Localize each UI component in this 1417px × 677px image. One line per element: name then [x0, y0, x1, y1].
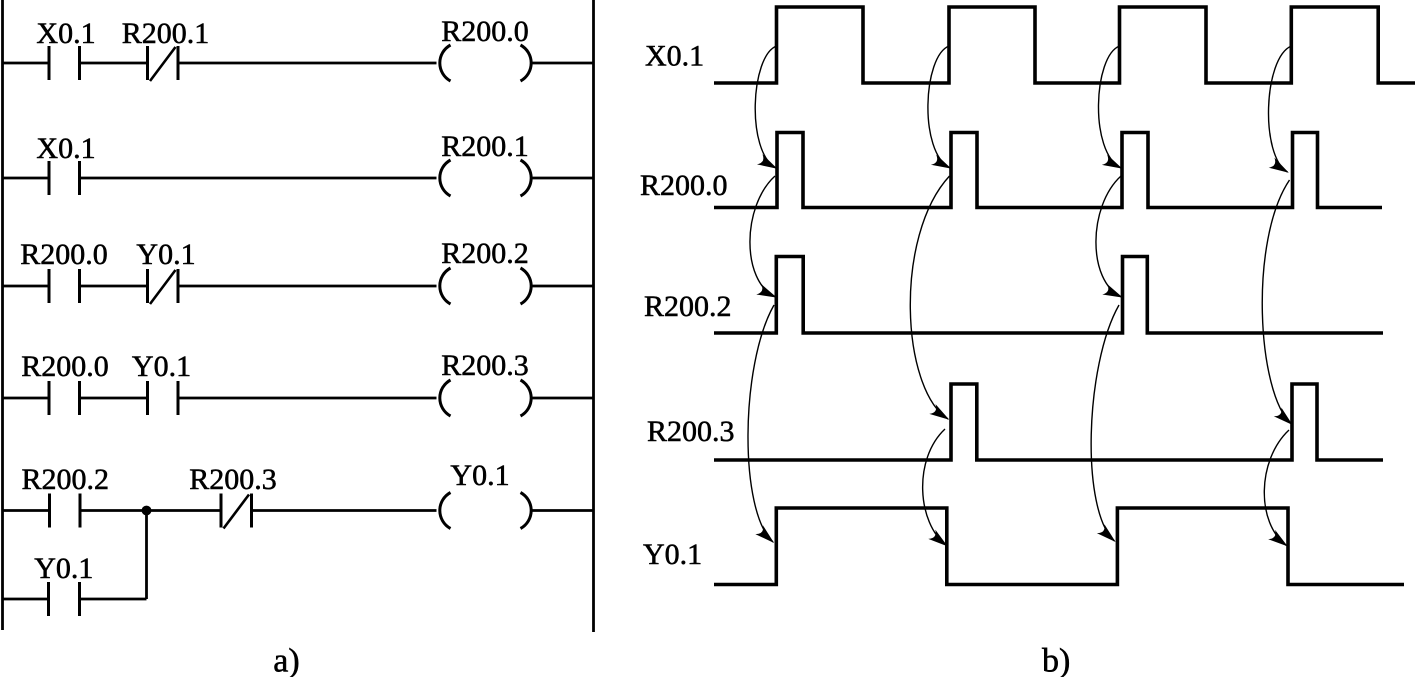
rung 5 wire segments — [3, 509, 594, 512]
coil Y0.1 — [440, 493, 531, 529]
coil R200.2 — [440, 268, 531, 304]
NC slash Y0.1 — [150, 270, 176, 304]
arrow X0.1->R200.0 c4 — [1269, 46, 1292, 172]
left power rail — [1, 0, 4, 630]
arrow X0.1->R200.0 c1 — [755, 46, 776, 168]
timing labels — [640, 40, 1070, 677]
rung 2 wire segments — [3, 177, 594, 180]
right power rail — [592, 0, 595, 632]
arrows — [748, 46, 1292, 546]
arrow R200.0->R200.2 c3 — [1096, 176, 1122, 297]
contact Y0.1 (NC) rung3 — [148, 269, 179, 303]
arrow R200.3->Y0.1 c2 — [923, 429, 947, 546]
NC slash R200.1 — [150, 47, 176, 81]
rung 4 wire segments — [3, 397, 594, 400]
svg-text:Y0.1: Y0.1 — [34, 552, 93, 585]
arrow X0.1->R200.0 c2 — [928, 46, 950, 168]
rung 3 wire segments — [3, 285, 594, 288]
svg-text:R200.2: R200.2 — [22, 463, 110, 496]
coil R200.0 — [440, 45, 531, 81]
arrow R200.3->Y0.1 c4 — [1264, 430, 1289, 546]
svg-text:Y0.1: Y0.1 — [643, 538, 702, 571]
svg-text:R200.3: R200.3 — [647, 415, 735, 448]
svg-text:R200.0: R200.0 — [21, 350, 109, 383]
rung 1 wire segments — [3, 62, 594, 65]
NC slash R200.3 — [224, 495, 250, 529]
svg-text:a): a) — [273, 643, 299, 677]
contact R200.0 rung3 — [49, 269, 80, 303]
parallel branch wire — [3, 511, 147, 600]
waveform R200.2 — [714, 257, 1383, 334]
svg-text:b): b) — [1042, 643, 1070, 677]
svg-text:Y0.1: Y0.1 — [450, 459, 509, 492]
arrow X0.1->R200.0 c3 — [1098, 46, 1121, 168]
contact X0.1 rung2 — [49, 161, 80, 195]
arrow R200.0->R200.2 c1 — [750, 176, 776, 297]
svg-text:X0.1: X0.1 — [36, 132, 95, 165]
waveform R200.3 — [714, 384, 1383, 460]
svg-text:R200.1: R200.1 — [441, 130, 529, 163]
svg-text:R200.0: R200.0 — [441, 15, 529, 48]
svg-text:Y0.1: Y0.1 — [132, 350, 191, 383]
arrow R200.2->Y0.1 c3 — [1091, 305, 1119, 541]
svg-text:R200.2: R200.2 — [441, 237, 529, 270]
contact Y0.1 branch — [49, 582, 80, 616]
coil R200.3 — [440, 380, 531, 416]
svg-text:R200.3: R200.3 — [189, 463, 277, 496]
svg-text:R200.2: R200.2 — [644, 290, 732, 323]
coil R200.1 — [440, 160, 531, 196]
arrow R200.2->Y0.1 c1 — [748, 305, 774, 542]
svg-text:R200.0: R200.0 — [20, 238, 108, 271]
svg-text:R200.0: R200.0 — [640, 169, 728, 202]
contact R200.2 rung5 — [50, 494, 81, 528]
contact R200.0 rung4 — [49, 381, 80, 415]
svg-text:R200.3: R200.3 — [441, 349, 529, 382]
waveform X0.1 — [714, 7, 1415, 83]
waveform R200.0 — [714, 133, 1382, 208]
arrow R200.0->R200.3 c2 — [910, 176, 949, 419]
svg-text:X0.1: X0.1 — [36, 17, 95, 50]
contact X0.1 rung1 — [49, 46, 80, 80]
junction node — [142, 506, 152, 516]
arrow R200.0->R200.3 c4 — [1262, 180, 1291, 424]
waveform Y0.1 — [714, 508, 1404, 585]
ladder labels — [20, 15, 529, 677]
contact Y0.1 rung4 — [148, 381, 179, 415]
svg-text:Y0.1: Y0.1 — [136, 238, 195, 271]
svg-text:R200.1: R200.1 — [122, 17, 210, 50]
contact R200.1 (NC) rung1 — [148, 46, 179, 80]
contact R200.3 (NC) rung5 — [221, 494, 252, 528]
svg-text:X0.1: X0.1 — [645, 40, 704, 73]
